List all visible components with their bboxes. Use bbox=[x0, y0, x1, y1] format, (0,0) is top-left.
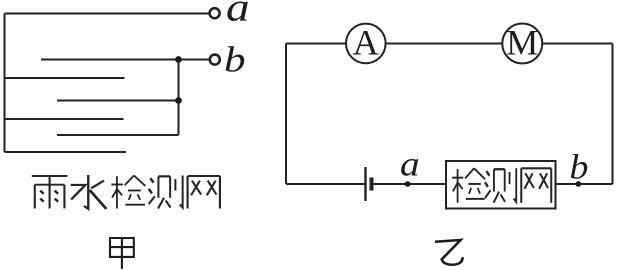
node b dot bbox=[575, 181, 581, 187]
box text 测 bbox=[485, 168, 516, 202]
wire: comb line 3 (left bus) bbox=[5, 77, 125, 79]
wire: bottom left segment to battery bbox=[286, 183, 365, 185]
wire: comb line 4 (right bus) bbox=[57, 100, 179, 102]
wire: line to terminal b bbox=[41, 59, 209, 61]
svg-text:A: A bbox=[353, 23, 379, 63]
wire: top middle segment bbox=[386, 43, 503, 45]
box text 网 bbox=[521, 168, 551, 203]
svg-text:a: a bbox=[226, 0, 250, 30]
motor M circle bbox=[502, 24, 542, 64]
wire: right bus vertical bbox=[178, 60, 180, 136]
wire: comb line 6 (right bus) bbox=[57, 134, 179, 136]
svg-text:b: b bbox=[570, 148, 589, 186]
node dot on b line bbox=[175, 56, 182, 63]
box 检测网 bbox=[446, 161, 556, 209]
battery short plate bbox=[370, 178, 374, 191]
caption 甲 bbox=[110, 238, 134, 269]
wire: top left segment bbox=[286, 43, 346, 45]
caption 乙 bbox=[435, 240, 463, 265]
caption 测 bbox=[149, 175, 183, 208]
svg-text:b: b bbox=[224, 40, 246, 80]
svg-text:M: M bbox=[506, 23, 538, 63]
wire: box to right vertical bbox=[556, 183, 613, 185]
wire: left bus vertical bbox=[4, 14, 6, 153]
battery long plate bbox=[364, 167, 366, 201]
caption 检 bbox=[111, 175, 145, 208]
wire: top line to terminal a bbox=[5, 13, 210, 15]
caption 网 bbox=[188, 176, 220, 209]
terminal a (open circle) bbox=[210, 8, 220, 18]
ammeter A circle bbox=[346, 24, 386, 64]
wire: battery to box bbox=[374, 183, 447, 185]
wire: left vertical of loop bbox=[285, 44, 287, 185]
node dot on comb line 4 bbox=[175, 97, 182, 104]
wire: top right segment bbox=[542, 43, 612, 45]
caption 雨 bbox=[32, 176, 68, 208]
node a dot bbox=[405, 181, 411, 187]
wire: comb line 7 (left bus) bbox=[5, 151, 127, 153]
wire: comb line 5 (left bus) bbox=[5, 118, 124, 120]
terminal b (open circle) bbox=[210, 55, 220, 65]
wire: right vertical of loop bbox=[612, 44, 614, 185]
svg-text:a: a bbox=[400, 145, 420, 184]
box text 检 bbox=[452, 168, 485, 202]
caption 水 bbox=[71, 175, 107, 209]
